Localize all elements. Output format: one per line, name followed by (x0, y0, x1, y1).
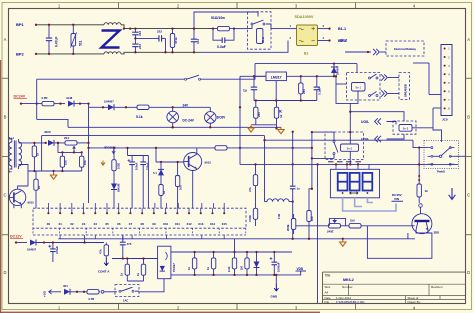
svg-text:1k: 1k (162, 190, 166, 194)
svg-text:24V: 24V (183, 103, 190, 107)
wire R18 up (309, 189, 312, 206)
wire Q1 to strip2 (13, 204, 15, 208)
svg-text:X5: X5 (105, 222, 109, 226)
resistor R15 470R (255, 202, 257, 226)
svg-text:X1: X1 (58, 222, 62, 226)
wire rail mid2 (265, 139, 414, 141)
svg-text:X12: X12 (186, 222, 192, 226)
wire B+ drop left (41, 136, 43, 171)
svg-text:1k: 1k (425, 189, 429, 193)
power ground 2 (50, 173, 56, 179)
svg-text:9v-1: 9v-1 (9, 136, 15, 140)
resistor R9 10k (81, 152, 83, 171)
svg-text:DC6V: DC6V (217, 116, 226, 120)
relay K2 dashed box (347, 73, 380, 101)
wire Q2 collector out (196, 148, 198, 154)
wire bottom rail A (121, 52, 200, 54)
relay K2 coil (352, 83, 366, 92)
svg-text:104: 104 (196, 39, 200, 44)
wire C3 to bottom rail (165, 38, 167, 52)
wire into K3 bottom (312, 157, 334, 159)
wire cap mid to C3 (135, 37, 155, 39)
svg-text:SDA1000V: SDA1000V (295, 15, 314, 19)
capacitor C2 222 (134, 38, 136, 44)
wire gnd stub (53, 171, 55, 173)
relay K3 coil (341, 144, 359, 151)
svg-text:200E: 200E (286, 224, 290, 231)
svg-text:222: 222 (138, 44, 142, 49)
wire to speaker2 (388, 93, 399, 95)
relay body JR (257, 29, 263, 44)
wire S3 to opto (139, 279, 164, 292)
wire rail mid (89, 147, 211, 149)
capacitor C12 1000uF (273, 252, 275, 262)
wire into JP pin6 (429, 94, 441, 96)
wire Q1 base stub (8, 196, 10, 198)
svg-text:2.2k: 2.2k (227, 266, 231, 272)
svg-text:1000uF: 1000uF (277, 262, 281, 272)
svg-text:1u: 1u (243, 89, 247, 93)
connector arrows to railway (373, 49, 379, 55)
svg-text:1AC: 1AC (123, 298, 128, 302)
display top stubs (335, 164, 337, 169)
wire lamp bottom rail (68, 126, 281, 128)
diode D6 1N4007 (30, 240, 36, 246)
resistor R20 47k (105, 243, 107, 259)
wire R12 top (177, 162, 179, 166)
node BP1 (35, 24, 37, 26)
power arrow 3DG9011 (112, 150, 115, 154)
svg-text:X6: X6 (117, 222, 121, 226)
wire R22 R23 bottom (127, 280, 143, 282)
capacitor C10 470uF (52, 243, 54, 249)
resistor R26 2.2k (234, 252, 236, 275)
svg-text:JR-H: JR-H (261, 37, 265, 43)
wire Q3 top (420, 207, 422, 213)
svg-text:1k: 1k (36, 152, 40, 156)
svg-text:VIN: VIN (394, 197, 399, 201)
svg-text:100uF: 100uF (134, 162, 138, 170)
svg-text:JC9: JC9 (442, 118, 448, 122)
svg-text:CONT A: CONT A (98, 270, 110, 274)
RP3 wiper bracket (329, 218, 345, 225)
wire lamp2 bottom stub (209, 123, 211, 128)
potentiometer RP1 1k (276, 101, 278, 125)
capacitor CX 0.47uF (48, 25, 50, 38)
svg-text:LM317: LM317 (271, 75, 282, 79)
wire arrows to box (380, 51, 386, 53)
svg-text:10k: 10k (64, 160, 68, 165)
svg-text:4148: 4148 (66, 96, 73, 100)
resistor R14 47k (255, 164, 257, 196)
svg-text:470R: 470R (248, 215, 252, 222)
switch K1 (251, 23, 253, 25)
svg-text:0.47uF: 0.47uF (55, 37, 59, 47)
node top-rail drop (36, 102, 38, 104)
svg-text:1M: 1M (239, 265, 243, 270)
wire Q2 base (156, 161, 184, 163)
wire Q1 collector (18, 186, 28, 189)
svg-text:Electrical Railway: Electrical Railway (394, 47, 416, 51)
resistor R16 200E (293, 214, 295, 234)
wire R10 to strip (35, 193, 37, 208)
svg-text:47k: 47k (99, 249, 103, 254)
svg-text:471k: 471k (174, 37, 178, 44)
wire K3 contact top (333, 132, 335, 140)
connector arrows out2 (381, 90, 387, 96)
svg-text:1k: 1k (206, 266, 210, 270)
title block column lines (349, 284, 441, 303)
svg-text:1k0: 1k0 (350, 218, 355, 222)
svg-text:1N4148: 1N4148 (118, 183, 121, 192)
arrow +UO (49, 290, 56, 294)
svg-text:X2: X2 (70, 222, 74, 226)
wire C8 to strip (131, 171, 133, 208)
wire big vertical bus upper (292, 132, 294, 181)
resistor R13 (210, 147, 232, 149)
wire top rail left (37, 78, 184, 80)
wire JP feed horizontal (413, 62, 429, 64)
wire tap to pot (296, 225, 325, 227)
svg-text:C: C (467, 193, 470, 198)
wire C10 bottom (52, 258, 54, 262)
display bottom wires (343, 198, 396, 211)
resistor R5 240 (300, 76, 302, 100)
left scan edge (0, 60, 1, 313)
connector arrows UO8 b (375, 136, 381, 142)
svg-text:17R: 17R (277, 214, 281, 219)
wire R7 down (33, 160, 35, 171)
svg-text:222: 222 (157, 30, 162, 34)
resistor R17 1k0 (344, 225, 366, 227)
power ground small (101, 161, 105, 166)
wire to speaker1 (388, 77, 399, 79)
wire inductor out (289, 201, 293, 203)
wire R10 top (28, 171, 36, 176)
svg-text:1k: 1k (187, 266, 191, 270)
svg-text:5.1: 5.1 (153, 171, 157, 175)
wire DC12V (16, 242, 27, 244)
transistor Q3 3DD15 (412, 214, 432, 234)
power arrow down right (449, 188, 456, 199)
svg-text:9v-2: 9v-2 (347, 147, 353, 151)
svg-text:UO8-: UO8- (361, 120, 369, 124)
diode D5 zener 5.1 (160, 162, 162, 180)
wire into switch (248, 25, 253, 29)
arrow CONT A (104, 258, 108, 265)
connector X strip second row dashes (33, 234, 246, 236)
wire JP feed vertical (428, 63, 430, 95)
switch box K1 dashed (248, 12, 272, 49)
svg-text:1N4007: 1N4007 (27, 248, 37, 252)
wire VDD bottom rail (171, 274, 292, 276)
svg-text:D: D (3, 270, 6, 275)
resistor R12 10k (177, 166, 179, 196)
wire Q2 emitter to strip (192, 171, 194, 209)
wire R27 top (113, 148, 115, 154)
speaker dashed box (399, 73, 410, 100)
resistor R6 240 (255, 101, 257, 125)
resistor R28 1M (246, 252, 248, 275)
resistor R21 4.7R (86, 291, 100, 293)
svg-text:X14: X14 (210, 222, 216, 226)
resistor R7 1k (33, 143, 35, 160)
rotary switch pole (439, 155, 441, 157)
wire input drop (239, 76, 241, 164)
title block outline (323, 272, 466, 303)
relay K3 contact switch (333, 141, 335, 143)
wire LM317 top rail (255, 63, 357, 65)
capacitor C13 220uF (142, 156, 144, 162)
wire D7 out (70, 291, 86, 293)
wire to DAC switch (104, 291, 117, 293)
wire RP2 out (80, 142, 89, 144)
wire DC24V (21, 103, 40, 105)
title block row lines (323, 284, 466, 299)
wire to lamp return rail (37, 119, 68, 127)
wire secondary top (19, 142, 47, 144)
diode D7 (64, 289, 70, 295)
svg-text:10k: 10k (83, 160, 87, 165)
wire VDD stub (292, 271, 301, 275)
resistor R24 1k (194, 252, 196, 275)
wire to relay K4 (350, 112, 404, 121)
svg-text:1k: 1k (279, 114, 283, 118)
svg-text:B1-1: B1-1 (338, 27, 346, 31)
varistor RV1 511 (72, 25, 74, 54)
wire rail into relay box (356, 64, 358, 73)
resistor R11 1k (160, 180, 162, 200)
wire rail B+ (42, 135, 265, 137)
wire top rail right (201, 64, 256, 80)
svg-text:4.7R: 4.7R (41, 96, 48, 100)
lamp HL2 DC6V (205, 112, 217, 124)
wire lamp top rail (152, 106, 210, 108)
svg-text:10k: 10k (179, 185, 183, 190)
wire adj rail (254, 100, 317, 102)
wire BP2 to choke bottom (36, 53, 104, 55)
bottom scan edge (0, 312, 320, 313)
capacitor C11 473 (122, 235, 124, 240)
wire into K3 top (312, 131, 334, 133)
wire divider mid (58, 143, 82, 153)
wire Q3 e2 (427, 230, 429, 233)
common-mode choke L1 (104, 23, 121, 25)
svg-text:X15: X15 (222, 222, 228, 226)
svg-text:A: A (467, 37, 470, 42)
display digit 3 (363, 173, 373, 191)
wire rail mid right (232, 147, 312, 149)
svg-text:GND: GND (271, 294, 279, 298)
wire Q1 emitter to strip (20, 204, 22, 208)
svg-text:BP2: BP2 (16, 51, 25, 56)
svg-text:1k: 1k (120, 272, 124, 276)
connector JP9 (441, 45, 452, 116)
resistor R3 4.7R (40, 103, 56, 105)
rotary switch SW1 dotted box (424, 141, 459, 169)
power ground 3 (340, 240, 346, 246)
wire rail to display (240, 163, 312, 165)
frame zone ticks (118, 3, 120, 9)
svg-text:MK6-2: MK6-2 (343, 278, 354, 282)
svg-text:DC12V: DC12V (10, 235, 22, 239)
wire JP pin8 (433, 107, 441, 109)
wire pot to rail (276, 125, 278, 129)
svg-text:240E: 240E (327, 230, 334, 234)
svg-text:DC-24V: DC-24V (183, 119, 195, 123)
svg-text:4R1: 4R1 (63, 284, 68, 288)
wire bottom rail to bridge pin2 (200, 41, 288, 53)
display bottom arrows (349, 192, 358, 194)
svg-text:240: 240 (302, 89, 306, 94)
svg-text:X7: X7 (129, 222, 133, 226)
wire drop to DC12V rail (84, 235, 86, 243)
potentiometer RP3 240E (325, 225, 344, 227)
svg-text:2k4: 2k4 (64, 136, 69, 140)
svg-text:240: 240 (257, 112, 261, 117)
diode D9 1N4148 (113, 177, 115, 184)
svg-text:470uF: 470uF (55, 246, 59, 254)
lamp HL1 DC-24V (167, 111, 179, 123)
svg-text:B1: B1 (304, 52, 308, 56)
svg-text:1N4004: 1N4004 (336, 65, 340, 75)
resistor R10 1k (35, 176, 37, 193)
wire UO8b to relay (387, 134, 405, 139)
wires X strip stubs up (47, 203, 49, 208)
svg-text:X10: X10 (163, 222, 169, 226)
Electrical Railway box (386, 41, 424, 56)
wire node long vertical (88, 104, 90, 203)
wire D6 out (36, 242, 104, 244)
wire under-strip rail (58, 238, 343, 240)
svg-text:47k: 47k (248, 187, 252, 192)
svg-text:Revision: Revision (431, 285, 443, 289)
connector X strip pins (47, 212, 49, 214)
wire LM317 output (287, 75, 335, 77)
wire rotary drop to R19 (418, 148, 420, 165)
optocoupler U2 PC817 (158, 246, 171, 279)
wire to switch box (234, 28, 248, 30)
display digit 2 (350, 173, 360, 191)
svg-text:F:\MKAB\MKB6-2.S01: F:\MKAB\MKB6-2.S01 (336, 300, 365, 304)
wire R8 R9 join (34, 170, 81, 172)
svg-text:Drawn By:: Drawn By: (408, 300, 422, 304)
wire pin1 stub (288, 28, 297, 30)
resistor R4 5.1k (134, 106, 152, 108)
relay K3 dashed box (325, 132, 364, 160)
wire LM317 input (240, 75, 266, 77)
wire mid vertical to strip (147, 156, 149, 209)
wire gnd rail bottom right (343, 238, 415, 240)
resistor R25 1k (213, 252, 215, 275)
svg-text:X13: X13 (198, 222, 204, 226)
svg-text:KP-2: KP-2 (340, 38, 347, 42)
svg-text:A: A (4, 37, 7, 42)
power ground (278, 127, 284, 133)
svg-text:PwkS: PwkS (437, 170, 445, 174)
wire R12 to strip (177, 196, 179, 208)
wire long bus to bottom (317, 164, 319, 303)
wire lamp1 bottom stub (172, 122, 174, 127)
svg-text:DC24V: DC24V (14, 95, 26, 99)
svg-text:103E: 103E (117, 163, 121, 169)
wire BP1 to choke top (36, 24, 104, 26)
wire inductor in (265, 201, 268, 203)
svg-text:X4: X4 (94, 222, 98, 226)
svg-text:B: B (467, 115, 470, 120)
wire R18 down (308, 226, 310, 239)
wire +UO (56, 291, 61, 293)
svg-text:B: B (4, 115, 7, 120)
regulator U1 LM317 (266, 72, 287, 81)
wire R14 down (255, 196, 257, 202)
diode D8 (256, 252, 258, 275)
rotary switch SW1 contacts (431, 147, 433, 149)
wire pin4 stub (318, 40, 330, 42)
wire rail to base (155, 148, 157, 162)
wire C13 to strip (142, 171, 144, 208)
svg-text:51Ω/10w: 51Ω/10w (211, 16, 225, 20)
svg-text:0.1uF: 0.1uF (318, 87, 322, 95)
wire R11 to strip (160, 200, 162, 208)
switch S2 on top rail (185, 78, 187, 80)
switch S3 dashed box (115, 285, 139, 297)
resistor R19 1k (418, 164, 420, 203)
power symbol GND (274, 284, 278, 291)
wire K3 coil to display rail (349, 151, 351, 164)
wire VDD top rail (171, 251, 292, 253)
inductor L2 (267, 199, 289, 202)
diode D3 1N4004 (333, 64, 335, 77)
bridge rectifier B1 (297, 25, 318, 46)
resistor R22 1k (126, 259, 128, 282)
display net labels (328, 161, 361, 163)
wire display rail (312, 163, 458, 165)
svg-text:1u: 1u (297, 187, 301, 191)
capacitor C9 1u (292, 181, 294, 186)
transformer T1 (9, 142, 12, 166)
capacitor C8 100uF (127, 148, 129, 156)
svg-text:1k: 1k (37, 185, 41, 189)
svg-text:X0: X0 (47, 222, 51, 226)
svg-text:BP1: BP1 (16, 22, 25, 27)
svg-text:400V: 400V (44, 130, 51, 134)
wire to railway connector (345, 51, 371, 53)
svg-text:PC817: PC817 (172, 263, 176, 272)
capacitor C4 104 (193, 29, 195, 40)
diode D4 (48, 140, 54, 146)
wire to lamp chain (89, 106, 104, 108)
svg-text:UO8-: UO8- (361, 137, 369, 141)
transistor Q1 (9, 189, 25, 205)
wire JP to rotary (433, 108, 442, 142)
power ground LM317 (248, 126, 254, 132)
wires X strip stubs down (59, 235, 61, 239)
resistor R1 471k (172, 29, 174, 53)
switch S3 (119, 290, 121, 292)
transistor Q2 (184, 153, 202, 171)
wire cap to input (254, 75, 266, 77)
relay K2 contacts (369, 77, 371, 79)
svg-text:3DD: 3DD (434, 231, 440, 235)
svg-text:1k: 1k (136, 272, 140, 276)
wire D1 out (74, 103, 89, 105)
svg-text:511: 511 (79, 41, 83, 46)
svg-text:222: 222 (138, 31, 142, 36)
svg-text:473: 473 (127, 242, 132, 246)
wire top rail A (121, 25, 213, 29)
wire rotary to frame edge (455, 155, 466, 157)
